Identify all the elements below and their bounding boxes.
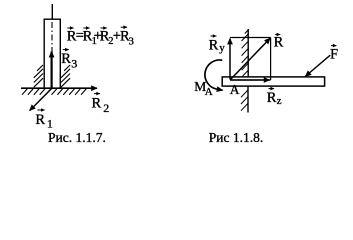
- svg-text:R: R: [92, 96, 102, 112]
- svg-text:2: 2: [103, 101, 109, 115]
- svg-text:1: 1: [92, 36, 97, 47]
- svg-text:Рис. 1.1.7.: Рис. 1.1.7.: [48, 130, 106, 145]
- svg-text:R: R: [209, 37, 219, 53]
- svg-text:R: R: [267, 90, 277, 106]
- svg-text:A: A: [230, 82, 240, 97]
- svg-text:z: z: [277, 95, 282, 107]
- svg-text:Рис 1.1.8.: Рис 1.1.8.: [209, 130, 263, 145]
- svg-text:A: A: [205, 86, 213, 98]
- svg-text:R: R: [61, 51, 71, 67]
- svg-text:2: 2: [108, 36, 113, 47]
- svg-text:3: 3: [129, 37, 134, 48]
- svg-text:3: 3: [71, 57, 77, 71]
- svg-text:R: R: [274, 35, 284, 51]
- svg-text:y: y: [219, 42, 225, 54]
- svg-text:1: 1: [47, 116, 53, 130]
- svg-text:F: F: [330, 46, 338, 62]
- svg-text:R: R: [35, 112, 45, 128]
